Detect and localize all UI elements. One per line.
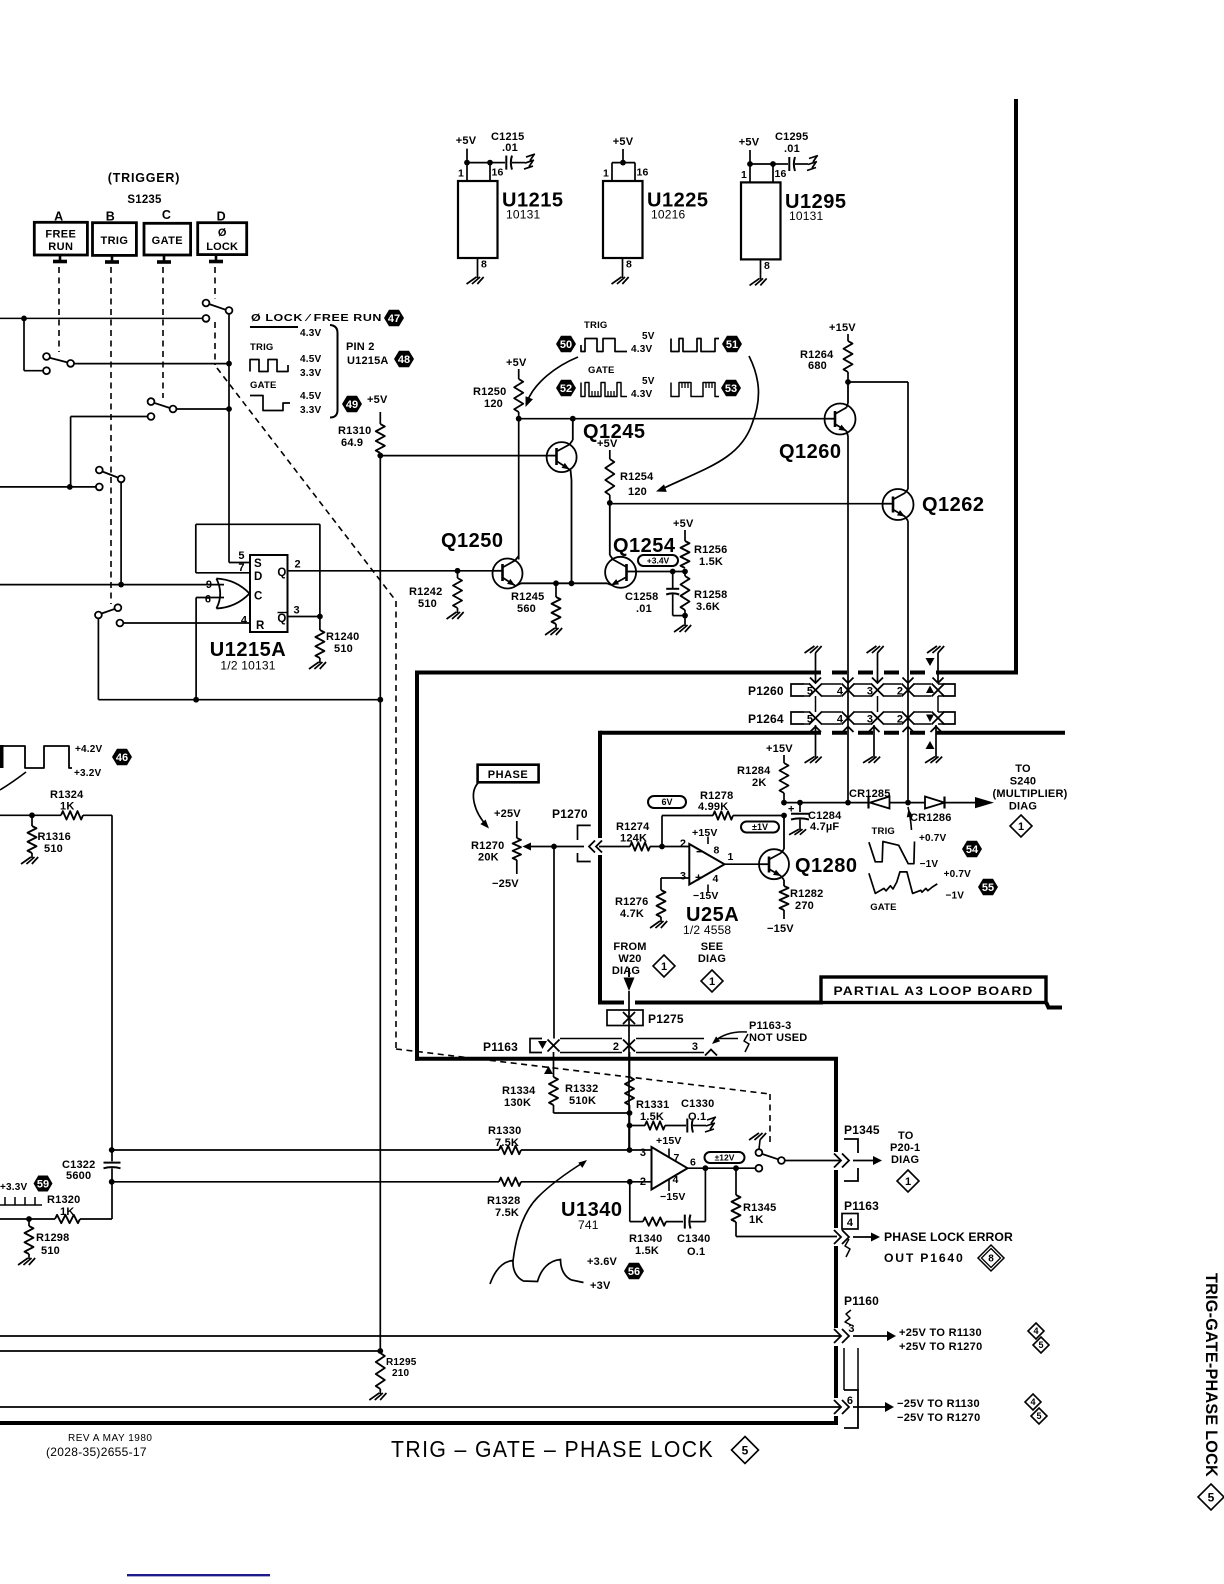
svg-text:(MULTIPLIER): (MULTIPLIER) (993, 788, 1068, 800)
svg-text:REV A MAY 1980: REV A MAY 1980 (68, 1433, 152, 1444)
svg-text:8: 8 (764, 260, 770, 272)
svg-text:TRIG: TRIG (250, 342, 274, 353)
resistor R1331 1.5K (630, 1125, 646, 1127)
waveform GATE 55 (869, 872, 937, 894)
svg-text:+3.3V: +3.3V (0, 1182, 28, 1193)
svg-text:1/2 4558: 1/2 4558 (683, 923, 731, 937)
wire stub to R1295 node from left (0, 1350, 380, 1352)
resistor R1240 510 (319, 617, 321, 631)
svg-text:PHASE: PHASE (488, 769, 528, 781)
svg-text:R1245: R1245 (511, 591, 544, 603)
svg-text:16: 16 (774, 168, 786, 180)
svg-text:R1254: R1254 (620, 471, 654, 483)
svg-text:P1163: P1163 (483, 1040, 518, 1054)
switch S1235B upper contact (96, 467, 103, 474)
svg-text:4.3V: 4.3V (631, 344, 653, 355)
svg-text:59: 59 (37, 1179, 49, 1191)
svg-text:P1270: P1270 (552, 807, 588, 821)
svg-text:−15V: −15V (767, 923, 794, 935)
svg-text:1K: 1K (60, 1206, 74, 1218)
svg-text:S240: S240 (1010, 776, 1037, 788)
svg-text:1/2 10131: 1/2 10131 (220, 659, 275, 673)
svg-text:130K: 130K (504, 1097, 531, 1109)
svg-text:+4.2V: +4.2V (75, 744, 103, 755)
svg-text:1: 1 (905, 1176, 911, 1188)
svg-text:+0.7V: +0.7V (944, 869, 972, 880)
svg-text:R1330: R1330 (488, 1125, 521, 1137)
border: top-right heavy bus line (1014, 99, 1018, 674)
svg-text:Ø LOCK ⁄ FREE RUN: Ø LOCK ⁄ FREE RUN (251, 312, 382, 324)
svg-text:510: 510 (418, 598, 437, 610)
svg-text:DIAG: DIAG (612, 965, 640, 977)
wire Q1245 collector rail to Q1260 base (519, 418, 825, 420)
svg-text:O.1: O.1 (687, 1246, 705, 1258)
ground below R1240 (319, 658, 321, 663)
ground below R1276 (660, 917, 662, 922)
svg-text:R1331: R1331 (636, 1099, 669, 1111)
svg-text:2: 2 (295, 559, 301, 571)
svg-text:1K: 1K (749, 1214, 763, 1226)
svg-text:7: 7 (674, 1152, 680, 1164)
svg-text:270: 270 (795, 900, 814, 912)
pointer curve at left edge (0, 772, 26, 790)
wire P1270 to R1274 (599, 846, 630, 848)
svg-text:53: 53 (725, 383, 737, 395)
svg-text:5V: 5V (642, 331, 655, 342)
svg-text:+3.6V: +3.6V (587, 1256, 618, 1268)
chassis ground after C1330 (707, 1117, 716, 1120)
svg-text:8: 8 (481, 259, 487, 271)
svg-text:510: 510 (334, 643, 353, 655)
svg-text:Q: Q (277, 567, 286, 579)
svg-text:4: 4 (713, 873, 719, 885)
wire +5V rail down left side (379, 453, 381, 700)
svg-text:210: 210 (392, 1368, 410, 1379)
svg-text:10131: 10131 (506, 208, 540, 222)
svg-text:3.3V: 3.3V (300, 368, 322, 379)
wire U1215A Q-bar output (288, 616, 320, 618)
svg-text:1K: 1K (60, 801, 74, 813)
svg-text:−1V: −1V (920, 859, 939, 870)
svg-text:124K: 124K (620, 833, 647, 845)
svg-text:51: 51 (726, 339, 738, 351)
pointer curve to pin 3 wire with hex 56 (513, 1162, 584, 1261)
capacitor C1330 0.1 (686, 1119, 688, 1133)
svg-text:P1160: P1160 (844, 1294, 879, 1308)
triangle below P1163 pin 1 (544, 1066, 553, 1074)
wire U1215A S input (229, 562, 250, 564)
svg-text:DIAG: DIAG (1009, 801, 1037, 813)
svg-text:C: C (254, 591, 263, 603)
svg-text:TRIG: TRIG (872, 826, 896, 837)
ground below R1298 (28, 1254, 30, 1259)
svg-text:5: 5 (742, 1443, 749, 1457)
svg-text:R1324: R1324 (50, 789, 84, 801)
wire R1328 input from left (111, 1181, 499, 1183)
svg-text:10216: 10216 (651, 208, 685, 222)
resistor R1328 7.5K (499, 1178, 521, 1186)
svg-text:.01: .01 (502, 142, 518, 154)
svg-text:20K: 20K (478, 852, 499, 864)
svg-text:R1328: R1328 (487, 1195, 520, 1207)
svg-text:FROM: FROM (613, 941, 646, 953)
svg-text:2: 2 (680, 838, 686, 850)
svg-text:TRIG – GATE – PHASE LOCK: TRIG – GATE – PHASE LOCK (391, 1436, 714, 1462)
svg-text:680: 680 (808, 360, 827, 372)
svg-text:.01: .01 (636, 603, 652, 615)
svg-text:P1264: P1264 (748, 712, 784, 726)
svg-text:TO: TO (898, 1130, 914, 1142)
svg-text:LOCK: LOCK (206, 241, 238, 253)
svg-text:3: 3 (640, 1147, 646, 1159)
svg-text:R1340: R1340 (629, 1233, 662, 1245)
svg-text:+15V: +15V (829, 322, 856, 334)
svg-text:5: 5 (1208, 1490, 1215, 1504)
capacitor C1322 5600 (111, 1150, 113, 1161)
resistor R1245 560 (555, 583, 557, 597)
svg-text:P1345: P1345 (844, 1123, 880, 1137)
svg-text:+25V TO R1130: +25V TO R1130 (899, 1327, 982, 1339)
wire +25V from left (0, 1335, 840, 1337)
wire left elbow down to switch A (23, 318, 25, 370)
svg-text:−: − (696, 844, 704, 859)
chevrons into P1260 from wires (843, 678, 854, 684)
svg-text:64.9: 64.9 (341, 437, 363, 449)
resistor R1310 64.9 (379, 412, 381, 424)
svg-text:7.5K: 7.5K (495, 1137, 519, 1149)
wire down left loop to C1322 (111, 815, 113, 1150)
svg-text:+5V: +5V (613, 136, 634, 148)
svg-text:8: 8 (626, 259, 632, 271)
resistor R1298 510 (28, 1219, 30, 1226)
or-gate U1215A clock input (216, 579, 220, 609)
svg-text:P1163: P1163 (844, 1199, 879, 1213)
svg-text:P1260: P1260 (748, 684, 784, 698)
svg-text:5: 5 (1036, 1411, 1041, 1421)
ground below R1242 (457, 608, 459, 613)
wire R1250 node down to Q1250 collector (518, 419, 520, 560)
wire R1310 node to Q1245 base (380, 455, 547, 457)
svg-text:R1242: R1242 (409, 586, 442, 598)
wire switch C lower contact to B-column switch (71, 416, 148, 418)
svg-text:−25V TO R1130: −25V TO R1130 (897, 1398, 980, 1410)
ground below R1295 (379, 1389, 381, 1394)
waveform square 46 (0, 745, 4, 768)
feedback R1340 1.5K C1340 0.1 (629, 1182, 631, 1222)
svg-text:±1V: ±1V (752, 822, 768, 832)
svg-text:6: 6 (690, 1157, 696, 1169)
svg-text:PIN 2: PIN 2 (346, 341, 375, 353)
svg-text:5V: 5V (642, 376, 655, 387)
wire: board edge A2 bottom (415, 1057, 838, 1061)
switch S1235C contact (148, 398, 155, 405)
wire emitter rail Q1250-Q1254 (521, 582, 607, 584)
blue mark bottom (127, 1574, 270, 1576)
switch at U1340 output (756, 1165, 763, 1172)
svg-text:4.99K: 4.99K (698, 801, 728, 813)
capacitor C1258 .01 (672, 572, 674, 589)
wire: A3 loop board left edge (598, 731, 602, 838)
grounds above P1260 (815, 653, 817, 683)
wire R1254 node to Q1262 base (610, 503, 883, 505)
dashed linkage A (58, 267, 60, 352)
wire Q1260 emitter down through P1260 pin 4 (847, 436, 849, 803)
wire R1274 to inverting input (630, 842, 650, 850)
svg-text:6: 6 (205, 594, 211, 606)
resistor R1320 1K (55, 1215, 80, 1223)
svg-text:4.5V: 4.5V (300, 354, 322, 365)
svg-text:52: 52 (560, 383, 572, 395)
svg-text:2K: 2K (752, 777, 766, 789)
wire switch B arm down to OR-gate pin 9 wire (120, 482, 122, 584)
svg-text:741: 741 (578, 1218, 599, 1232)
svg-text:9: 9 (206, 579, 212, 591)
wire R1320 from left (0, 1218, 55, 1220)
svg-text:4: 4 (673, 1174, 679, 1186)
wire: A3 loop board bottom edge (598, 1001, 624, 1005)
label PHASE box (478, 765, 539, 783)
svg-text:R1334: R1334 (502, 1085, 536, 1097)
svg-text:OUT P1640: OUT P1640 (884, 1251, 965, 1265)
triangle marker above pin1 column (926, 658, 935, 666)
wire: bottom board edge (0, 1421, 838, 1425)
svg-text:Q1280: Q1280 (795, 855, 858, 877)
svg-text:6V: 6V (661, 797, 672, 807)
svg-text:3: 3 (692, 1041, 698, 1053)
grounds below P1264 (815, 725, 817, 753)
wire switch C arm to D-column node (176, 408, 229, 410)
svg-text:Q: Q (277, 613, 286, 625)
svg-text:5600: 5600 (66, 1170, 91, 1182)
svg-text:2: 2 (640, 1176, 646, 1188)
wire: board edge right vertical at P-connectors (834, 1059, 838, 1152)
svg-text:R1310: R1310 (338, 425, 371, 437)
svg-text:±12V: ±12V (715, 1153, 735, 1163)
svg-text:120: 120 (484, 398, 503, 410)
svg-text:NOT USED: NOT USED (749, 1032, 807, 1044)
svg-text:4.7K: 4.7K (620, 908, 644, 920)
voltage oval +-12V (705, 1152, 745, 1163)
box: PARTIAL A3 LOOP BOARD (821, 977, 1046, 1003)
wire OR gate pin6 elbow (196, 597, 224, 599)
svg-text:RUN: RUN (48, 241, 73, 253)
wire R1270 wiper (528, 846, 554, 848)
svg-text:510: 510 (44, 843, 63, 855)
svg-text:+15V: +15V (766, 743, 793, 755)
svg-text:1: 1 (709, 976, 715, 988)
voltage oval +3.4V at Q1254 base (638, 555, 678, 566)
svg-text:R1332: R1332 (565, 1083, 598, 1095)
svg-text:1: 1 (661, 961, 667, 973)
svg-text:+5V: +5V (506, 357, 527, 369)
switch S1235B lower contact (115, 604, 122, 611)
svg-text:+3.4V: +3.4V (647, 556, 670, 566)
IC U1225 power block (612, 162, 635, 164)
svg-text:R1320: R1320 (47, 1194, 80, 1206)
svg-text:GATE: GATE (152, 235, 183, 247)
svg-text:1: 1 (741, 169, 747, 181)
svg-text:.01: .01 (784, 143, 800, 155)
svg-text:GATE: GATE (870, 902, 896, 913)
svg-text:C1258: C1258 (625, 591, 658, 603)
bracket for waveforms 47-49 (330, 325, 338, 418)
svg-text:−15V: −15V (693, 890, 719, 902)
opamp U25A (689, 844, 724, 885)
resistor R1316 510 (31, 815, 33, 826)
svg-text:TRIG-GATE-PHASE LOCK: TRIG-GATE-PHASE LOCK (1202, 1273, 1220, 1477)
svg-text:510K: 510K (569, 1095, 596, 1107)
svg-text:SEE: SEE (701, 941, 724, 953)
svg-text:510: 510 (41, 1245, 60, 1257)
svg-text:10131: 10131 (789, 209, 823, 223)
svg-text:3: 3 (680, 871, 686, 883)
svg-text:PHASE LOCK ERROR: PHASE LOCK ERROR (884, 1230, 1013, 1244)
connector P1275 (607, 1010, 643, 1026)
svg-text:TO: TO (1015, 763, 1031, 775)
svg-text:560: 560 (517, 603, 536, 615)
svg-text:R1295: R1295 (386, 1357, 417, 1368)
ground above output switch (759, 1140, 760, 1149)
svg-text:3: 3 (848, 1323, 854, 1335)
svg-text:8: 8 (714, 845, 720, 857)
pointer arc right from waveform 51/53 (662, 356, 758, 489)
svg-text:GATE: GATE (250, 380, 276, 391)
resistor R1324 1K (61, 811, 83, 819)
svg-text:+5V: +5V (673, 518, 694, 530)
svg-text:7.5K: 7.5K (495, 1207, 519, 1219)
dashed linkage D diagonal to loop board (217, 368, 396, 601)
svg-text:+5V: +5V (597, 438, 618, 450)
pointer arc left from waveform 50 (527, 357, 578, 402)
svg-text:4: 4 (241, 615, 248, 627)
switch S1235D contact (203, 300, 210, 307)
svg-text:C1330: C1330 (681, 1098, 714, 1110)
svg-text:O.1: O.1 (688, 1111, 706, 1123)
resistor R1334 130K (553, 1052, 555, 1077)
wire switch A to node on D-column (74, 363, 229, 365)
voltage oval +-1V (741, 822, 779, 833)
svg-text:55: 55 (982, 882, 994, 894)
wire U1215A Q output to Q1250 base (288, 570, 493, 572)
resistor R1276 4.7K (657, 890, 666, 917)
svg-text:1: 1 (1018, 821, 1024, 833)
svg-text:54: 54 (966, 844, 979, 856)
svg-text:R1250: R1250 (473, 386, 506, 398)
resistor R1332 510K (629, 1052, 631, 1077)
svg-text:5: 5 (1038, 1340, 1043, 1350)
svg-text:R1345: R1345 (743, 1202, 776, 1214)
dashed linkage B (110, 267, 112, 604)
svg-text:TRIG: TRIG (584, 320, 608, 331)
svg-text:1.5K: 1.5K (699, 556, 723, 568)
svg-text:+: + (695, 871, 702, 885)
wire switch B lower to U1215A R input (123, 622, 250, 624)
svg-text:16: 16 (491, 167, 503, 179)
ground below R1258 (684, 616, 686, 621)
svg-text:R1258: R1258 (694, 589, 727, 601)
wire OR gate pin 9 from left edge (0, 584, 224, 586)
ground below R1245 (555, 624, 557, 629)
svg-text:4.3V: 4.3V (631, 389, 653, 400)
wire Q1262 emitter down through P1260 pin 2 (907, 521, 909, 803)
svg-text:46: 46 (116, 752, 128, 764)
wire -25V from left (0, 1406, 840, 1408)
wire R1324 input from left (0, 814, 61, 816)
svg-text:Q1260: Q1260 (779, 441, 842, 463)
svg-text:R1316: R1316 (38, 831, 71, 843)
svg-text:GATE: GATE (588, 365, 614, 376)
svg-text:50: 50 (560, 339, 572, 351)
wire R1264 node right and down to Q1262 collector (848, 381, 908, 383)
svg-text:4.3V: 4.3V (300, 328, 322, 339)
wire switch B common down to free-run rail (97, 618, 99, 699)
svg-text:+3.2V: +3.2V (74, 768, 102, 779)
svg-text:56: 56 (628, 1266, 640, 1278)
svg-text:R1276: R1276 (615, 896, 648, 908)
svg-text:+3V: +3V (590, 1280, 611, 1292)
svg-text:8: 8 (988, 1254, 994, 1265)
arrow FROM W20 into P1275 (628, 968, 630, 977)
svg-text:3.6K: 3.6K (696, 601, 720, 613)
svg-text:P1163-3: P1163-3 (749, 1020, 791, 1032)
resistor R1295 210 (377, 1348, 383, 1354)
svg-text:16: 16 (636, 167, 648, 179)
svg-text:PARTIAL A3 LOOP BOARD: PARTIAL A3 LOOP BOARD (834, 984, 1034, 998)
svg-text:S1235: S1235 (127, 194, 162, 206)
wire from W20 down to P1163 pin 2 (628, 991, 630, 1152)
svg-text:−15V: −15V (660, 1191, 686, 1203)
svg-text:Q1254: Q1254 (613, 535, 676, 557)
svg-text:R1298: R1298 (36, 1232, 69, 1244)
svg-text:+5V: +5V (739, 137, 760, 149)
svg-text:C1340: C1340 (677, 1233, 710, 1245)
svg-text:P1275: P1275 (648, 1012, 684, 1026)
svg-text:Q1262: Q1262 (922, 494, 985, 516)
svg-text:+5V: +5V (456, 135, 477, 147)
svg-text:Ø: Ø (218, 227, 227, 239)
connector P1160 pin 6 (843, 1348, 845, 1390)
wire: A3 loop board top edge (600, 731, 806, 735)
resistor R1345 1K (735, 1168, 737, 1195)
svg-text:4.5V: 4.5V (300, 391, 322, 402)
svg-text:CR1286: CR1286 (910, 812, 952, 824)
svg-text:1: 1 (728, 851, 734, 863)
wire U1215A D input feedback from Q-bar (196, 572, 250, 574)
svg-text:R: R (256, 620, 265, 632)
waveform comb 59 (0, 1204, 42, 1206)
svg-text:TRIG: TRIG (100, 235, 128, 247)
svg-text:R1282: R1282 (790, 888, 823, 900)
wire opamp output to Q1280 base (725, 863, 760, 865)
svg-text:4: 4 (1033, 1326, 1038, 1336)
flip-flop U1215A (250, 555, 288, 632)
svg-text:U1215A: U1215A (347, 355, 389, 367)
resistor R1330 7.5K (499, 1146, 521, 1154)
svg-text:1: 1 (603, 168, 609, 180)
svg-text:−1V: −1V (946, 891, 965, 902)
svg-text:P20-1: P20-1 (890, 1142, 920, 1154)
svg-text:4: 4 (847, 1217, 854, 1229)
wire from left edge to switch D (0, 317, 203, 319)
svg-text:C: C (162, 208, 171, 222)
svg-text:+15V: +15V (692, 827, 718, 839)
svg-text:−25V: −25V (492, 878, 519, 890)
wire Q1254 base to divider (636, 571, 685, 573)
switch S1235A contact (43, 353, 50, 360)
svg-text:1: 1 (458, 168, 464, 180)
resistor R1242 510 (457, 571, 459, 578)
svg-text:(2028-35)2655-17: (2028-35)2655-17 (46, 1445, 147, 1459)
